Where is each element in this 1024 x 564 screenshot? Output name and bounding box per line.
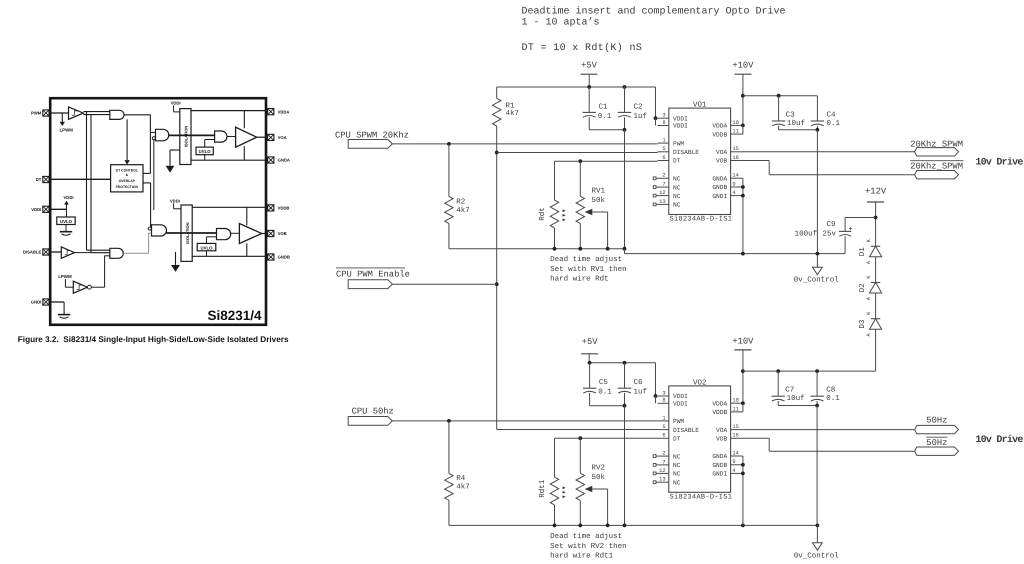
svg-text:DISABLE: DISABLE (673, 149, 699, 156)
node R2 top junction (447, 142, 451, 146)
svg-text:ISOLATION: ISOLATION (184, 126, 189, 148)
svg-text:9: 9 (732, 459, 735, 465)
svg-text:7: 7 (662, 459, 665, 465)
capacitor C1 0.1 (583, 87, 625, 130)
svg-text:1 - 10 apta’s: 1 - 10 apta’s (522, 16, 600, 28)
wire cap drop to 0v rail (816, 406, 818, 526)
svg-text:GNDA: GNDA (712, 453, 727, 460)
wire VOA output VO2 (743, 429, 915, 431)
svg-text:VDDA: VDDA (712, 400, 727, 407)
svg-text:OVERLAP: OVERLAP (119, 179, 136, 183)
svg-text:RV1: RV1 (592, 187, 606, 195)
wire +10V rail (743, 95, 818, 97)
wire DT pin to box (49, 178, 111, 180)
wire GND pins of VO1 to 0v rail (741, 178, 745, 255)
svg-text:DT CONTROL: DT CONTROL (116, 168, 138, 172)
svg-text:DT: DT (673, 158, 681, 165)
svg-text:GNDB: GNDB (712, 184, 727, 191)
svg-text:0v_Control: 0v_Control (794, 275, 840, 284)
op-amp VO2 (driver IC Si8234AB-D-IS1) (653, 378, 743, 501)
resistor R1 4k7 (493, 87, 520, 126)
svg-text:10uf: 10uf (787, 119, 806, 128)
svg-text:0.1: 0.1 (598, 112, 612, 121)
wire cap drop to 0v rail (816, 130, 818, 254)
svg-text:Deadtime insert and complement: Deadtime insert and complementary Opto D… (522, 5, 786, 17)
driver triangle A (227, 127, 268, 147)
isolation block A (180, 109, 191, 165)
svg-text:PROTECTION: PROTECTION (116, 185, 139, 189)
wire +5V to VDDI pins (654, 363, 658, 404)
capacitor C5 0.1 (583, 363, 625, 406)
svg-text:10: 10 (732, 398, 738, 404)
svg-text:VDDI: VDDI (170, 198, 180, 203)
svg-text:VDDI: VDDI (64, 195, 74, 200)
wire double bus from buffer (83, 112, 109, 253)
capacitor C3 10uf (772, 96, 818, 130)
ground arrow below isolation B (171, 252, 180, 272)
svg-text:50Hz: 50Hz (926, 415, 947, 425)
wire DISABLE line VO1 (497, 152, 658, 154)
svg-text:PWM: PWM (673, 140, 684, 147)
svg-text:1uf: 1uf (634, 112, 648, 121)
wire DT line VO2 (555, 437, 658, 439)
svg-text:0.1: 0.1 (826, 394, 840, 403)
wire diode chain to +10V rail (875, 329, 877, 371)
pin VDDA (right) (268, 109, 290, 115)
ground arrow below isolation A (166, 150, 180, 173)
svg-text:50k: 50k (592, 473, 606, 482)
wire +5V rail (497, 86, 656, 88)
svg-text:5: 5 (662, 424, 665, 430)
LPWM inverter (lower) (58, 256, 110, 293)
svg-text:C8: C8 (826, 386, 835, 395)
svg-text:15: 15 (732, 146, 738, 152)
svg-text:0.1: 0.1 (827, 119, 841, 128)
power +5V symbol (VO2 section) (581, 337, 598, 363)
svg-text:13: 13 (659, 477, 665, 483)
wire +5V rail (590, 362, 656, 364)
power +12V symbol (865, 187, 887, 247)
secondary B supply rails (192, 207, 268, 256)
svg-text:11: 11 (732, 129, 738, 135)
svg-text:VDDB: VDDB (712, 131, 727, 138)
wire cap ground drop (624, 406, 626, 526)
svg-text:GNDI: GNDI (712, 471, 727, 478)
capacitor C4 0.1 (811, 96, 841, 132)
wire PWM line VO1 (392, 143, 657, 145)
pin VOB (right) (268, 230, 287, 236)
svg-text:CPU 50hz: CPU 50hz (352, 406, 394, 416)
capacitor C8 0.1 (810, 371, 840, 407)
svg-text:6: 6 (662, 433, 665, 439)
svg-text:VDDB: VDDB (278, 206, 290, 211)
svg-text:VDDB: VDDB (712, 409, 727, 416)
svg-text:10v Drive: 10v Drive (975, 434, 1023, 446)
svg-text:C7: C7 (785, 386, 794, 395)
svg-text:Rdt1: Rdt1 (538, 479, 547, 498)
svg-text:+12V: +12V (865, 187, 887, 197)
svg-text:0.1: 0.1 (598, 388, 612, 397)
svg-text:VOB: VOB (716, 436, 727, 443)
svg-text:CPU PWM Enable: CPU PWM Enable (336, 269, 410, 279)
svg-text:3: 3 (662, 113, 665, 119)
ground 0v_Control (794, 524, 840, 561)
svg-text:C9: C9 (827, 220, 836, 229)
AND gate A2 (pre-isolation top) (150, 129, 168, 210)
svg-text:1uf: 1uf (634, 388, 648, 397)
node DISABLE VO1 junction (495, 151, 499, 155)
svg-text:C5: C5 (599, 378, 609, 387)
svg-text:2: 2 (662, 173, 665, 179)
capacitor C7 10uf (772, 371, 818, 405)
svg-text:4k7: 4k7 (456, 206, 470, 215)
svg-text:9: 9 (732, 181, 735, 187)
node PWM-Enable junction (495, 282, 499, 286)
wire A1 output to DT control (124, 115, 150, 174)
svg-text:VOB: VOB (716, 158, 727, 165)
svg-text:GNDB: GNDB (278, 255, 290, 260)
node output flag 20Khz_SPWM (910, 139, 963, 156)
svg-text:GNDA: GNDA (278, 158, 290, 163)
svg-text:15: 15 (732, 424, 738, 430)
UVLO box secondary A (196, 147, 213, 160)
svg-text:UVLO: UVLO (60, 219, 73, 224)
svg-text:25v: 25v (823, 229, 837, 238)
svg-text:2: 2 (662, 451, 665, 457)
svg-text:5: 5 (662, 146, 665, 152)
svg-text:10: 10 (732, 120, 738, 126)
svg-text:NC: NC (673, 193, 681, 200)
svg-text:Set with RV1 then: Set with RV1 then (550, 265, 627, 274)
svg-text:D2: D2 (858, 283, 867, 292)
svg-text:C2: C2 (634, 102, 643, 111)
svg-text:NC: NC (673, 202, 681, 209)
svg-text:GNDA: GNDA (712, 175, 727, 182)
UVLO primary + VDDI arrow (49, 195, 75, 224)
pin VDDI (left) (31, 206, 49, 212)
node CPU PWM Enable input flag (336, 268, 497, 289)
driver triangle B (231, 224, 268, 244)
svg-text:13: 13 (659, 199, 665, 205)
wire VOA output VO1 (743, 151, 915, 153)
node output flag 50Hz (915, 415, 959, 433)
pin GNDA (right) (268, 157, 290, 163)
svg-text:DT: DT (673, 436, 681, 443)
node CPU SPWM 20Khz input flag (335, 131, 409, 149)
svg-text:DISABLE: DISABLE (23, 250, 42, 255)
svg-text:14: 14 (732, 173, 738, 179)
wire +5V to VDDI pins (654, 87, 658, 126)
svg-text:DISABLE: DISABLE (673, 427, 699, 434)
svg-text:D3: D3 (858, 319, 867, 329)
secondary A supply rails (191, 111, 268, 161)
svg-text:Figure 3.2. Si8231/4 Single-I: Figure 3.2. Si8231/4 Single-Input High-S… (18, 335, 289, 344)
pin VOA (right) (268, 134, 287, 140)
wire DT line VO1 (555, 160, 658, 162)
svg-text:VOA: VOA (716, 149, 727, 156)
svg-text:Dead time adjust: Dead time adjust (550, 255, 622, 264)
svg-text:C4: C4 (827, 110, 837, 119)
pin DT (left) (36, 176, 49, 182)
svg-text:NC: NC (673, 462, 681, 469)
svg-text:VDDI: VDDI (171, 100, 181, 105)
UVLO box secondary B (197, 243, 216, 256)
svg-text:GNDB: GNDB (712, 462, 727, 469)
outer IC boundary box (50, 98, 266, 325)
wire DT box to lower gate (143, 183, 152, 229)
svg-text:6: 6 (662, 155, 665, 161)
svg-text:RV2: RV2 (592, 463, 606, 472)
svg-text:VDDI: VDDI (673, 115, 688, 122)
svg-text:Set with RV2 then: Set with RV2 then (550, 542, 627, 551)
svg-text:NC: NC (673, 184, 681, 191)
wire PWM input (49, 112, 69, 114)
AND gate A1 (top primary) (110, 110, 124, 119)
text dead time adjust note (550, 255, 627, 284)
svg-text:NC: NC (673, 479, 681, 486)
potentiometer RV1 50k (576, 161, 608, 249)
capacitor C6 1uf (618, 363, 648, 408)
svg-text:UVLO: UVLO (199, 149, 212, 154)
capacitor C9 100uf 25v (795, 218, 876, 254)
diode D3 (858, 311, 882, 337)
svg-text:8: 8 (662, 120, 665, 126)
wire VOB output VO1 (743, 161, 915, 175)
node R4 top junction (447, 419, 451, 423)
ground 0v_Control (794, 252, 840, 285)
svg-text:C1: C1 (599, 102, 609, 111)
svg-text:8: 8 (662, 398, 665, 404)
svg-text:100uf: 100uf (795, 229, 818, 238)
svg-text:VDDA: VDDA (278, 109, 290, 114)
svg-text:DT: DT (36, 177, 42, 182)
svg-text:VDDI: VDDI (673, 393, 688, 400)
svg-text:PWM: PWM (673, 418, 684, 425)
svg-text:GNDI: GNDI (31, 300, 41, 305)
svg-text:0v_Control: 0v_Control (794, 551, 840, 560)
svg-text:VDDI: VDDI (31, 207, 41, 212)
svg-text:+5V: +5V (581, 60, 598, 70)
pin VDDB (right) (268, 205, 290, 211)
svg-text:hard wire Rdt: hard wire Rdt (550, 275, 609, 284)
text dead time adjust note (550, 532, 627, 561)
svg-text:3: 3 (662, 390, 665, 396)
svg-text:R4: R4 (456, 475, 466, 483)
AND gate B2 (pre-isolation lower) (123, 225, 166, 254)
ground at GNDI pin (49, 302, 70, 318)
svg-text:DT = 10 x Rdt(K) nS: DT = 10 x Rdt(K) nS (522, 42, 643, 54)
wire cap ground drop (624, 130, 626, 249)
svg-text:UVLO: UVLO (201, 245, 214, 250)
wire VO2 DISABLE entry (497, 429, 658, 431)
svg-text:LPWM: LPWM (58, 274, 72, 279)
arrow into DT control box (124, 119, 129, 164)
svg-text:VDDI: VDDI (673, 123, 688, 130)
op-amp VO1 (driver IC Si8234AB-D-IS1) (653, 101, 743, 224)
isolation block B (181, 205, 192, 261)
wire PWM line VO2 (392, 420, 657, 422)
svg-text:+5V: +5V (582, 337, 599, 347)
svg-text:NC: NC (673, 176, 681, 183)
wire enable vertical (R1 to VO2 DISABLE) (496, 126, 498, 430)
svg-text:50k: 50k (592, 196, 606, 205)
svg-text:C3: C3 (786, 110, 796, 119)
AND gate B1 (lower primary) (75, 248, 124, 258)
svg-text:Dead time adjust: Dead time adjust (550, 532, 622, 541)
pin DISABLE (left) (23, 249, 49, 255)
AND gate A3 (secondary A) (205, 131, 227, 147)
svg-text:LPWM: LPWM (59, 127, 73, 132)
capacitor C2 1uf (618, 87, 648, 132)
svg-text:Rdt: Rdt (538, 207, 547, 221)
node output flag 50Hz (inverted) (915, 437, 959, 455)
diode D1 (859, 238, 882, 282)
node output flag 20Khz_SPWM (inverted) (910, 161, 963, 179)
svg-text:Si8234AB-D-IS1: Si8234AB-D-IS1 (670, 215, 733, 224)
resistor R2 4k7 (445, 144, 470, 249)
svg-text:VDDI: VDDI (673, 401, 688, 408)
power +10V symbol (VO2 section) (732, 336, 754, 411)
svg-text:4k7: 4k7 (456, 483, 470, 492)
wire dead-time bottom rail (449, 524, 818, 528)
svg-text:VOA: VOA (278, 135, 287, 140)
diode D2 (858, 275, 882, 319)
svg-text:Si8231/4: Si8231/4 (207, 308, 262, 323)
svg-text:R2: R2 (456, 197, 465, 206)
svg-text:VO2: VO2 (693, 378, 707, 387)
svg-text:10v Drive: 10v Drive (975, 157, 1023, 169)
title text (522, 5, 786, 54)
svg-text:VO1: VO1 (693, 101, 707, 110)
potentiometer RV2 50k (576, 438, 608, 525)
LPWM arrow (primary top) (59, 113, 73, 132)
wire GND pins of VO2 to 0v rail (741, 456, 745, 525)
svg-text:hard wire Rdt1: hard wire Rdt1 (550, 552, 614, 561)
VDDI label isolation B (170, 198, 181, 208)
DT CONTROL and OVERLAP PROTECTION box (111, 165, 143, 192)
pin GNDB (right) (268, 254, 290, 260)
svg-text:VOB: VOB (278, 231, 287, 236)
resistor Rdt (selected) (538, 161, 566, 249)
svg-text:11: 11 (732, 406, 738, 412)
wire +10V rail (743, 370, 876, 372)
svg-text:+10V: +10V (732, 60, 754, 70)
wire channel A through isolation (169, 134, 215, 136)
pin PWM (left) (31, 110, 49, 116)
wire VOB output VO2 (743, 438, 915, 451)
svg-text:VOA: VOA (716, 427, 727, 434)
svg-text:PWM: PWM (31, 111, 42, 116)
svg-text:12: 12 (659, 468, 665, 474)
svg-text:NC: NC (673, 471, 681, 478)
ground below primary UVLO (60, 225, 72, 236)
svg-text:10uf: 10uf (787, 394, 806, 403)
power +10V symbol (VO1 section) (732, 60, 754, 134)
svg-text:7: 7 (662, 182, 665, 188)
svg-text:4: 4 (732, 190, 735, 196)
svg-text:C6: C6 (634, 378, 644, 387)
buffer DISABLE (schmitt) (49, 247, 75, 258)
svg-text:VDDA: VDDA (712, 123, 727, 130)
buffer U-in (schmitt) top channel (69, 107, 84, 119)
Si8231/4 block-diagram figure (datasheet bitmap) (23, 98, 290, 325)
svg-text:NC: NC (673, 453, 681, 460)
svg-text:16: 16 (732, 155, 738, 161)
resistor R4 4k7 (445, 421, 470, 526)
svg-text:GNDI: GNDI (712, 193, 727, 200)
svg-text:1: 1 (662, 138, 665, 144)
svg-text:4k7: 4k7 (506, 109, 520, 118)
power +5V symbol (VO1 section) (581, 60, 598, 87)
resistor Rdt1 (selected) (538, 438, 566, 525)
svg-text:16: 16 (732, 433, 738, 439)
wire channel B through isolation (167, 232, 217, 234)
svg-text:+10V: +10V (732, 336, 754, 346)
svg-text:Si8234AB-D-IS1: Si8234AB-D-IS1 (670, 492, 733, 501)
svg-text:14: 14 (732, 450, 738, 456)
svg-text:12: 12 (659, 190, 665, 196)
AND gate B3 (secondary B) (207, 229, 231, 244)
svg-text:D1: D1 (859, 247, 867, 257)
node CPU 50hz input flag (348, 406, 394, 425)
pin GNDI (left) (31, 299, 49, 305)
svg-text:4: 4 (732, 468, 735, 474)
wire dead-time bottom rail (449, 247, 845, 254)
svg-text:1: 1 (662, 415, 665, 421)
VDDI label isolation A (171, 100, 181, 112)
